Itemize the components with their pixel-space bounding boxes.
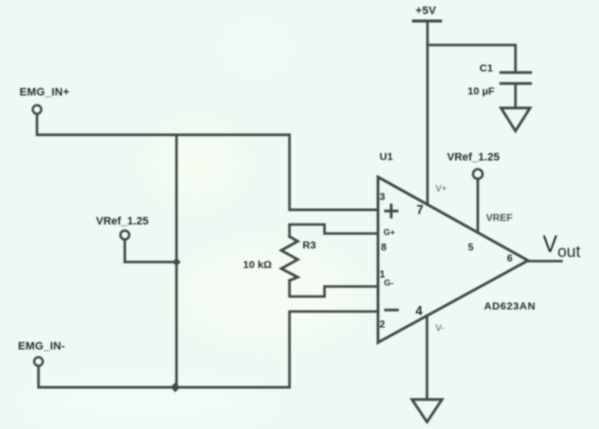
wire VREF to pin 5 bbox=[477, 179, 480, 233]
wire +5V to pin 7 bbox=[426, 23, 429, 205]
plus symbol inside op-amp bbox=[386, 205, 398, 217]
svg-text:U1: U1 bbox=[380, 151, 394, 163]
svg-text:+5V: +5V bbox=[416, 5, 437, 17]
wire EMG_IN- to pin 2 bbox=[39, 312, 378, 388]
capacitor C1 top plate bbox=[501, 71, 531, 74]
svg-text:V+: V+ bbox=[436, 184, 447, 194]
wire +5V branch to C1 bbox=[428, 45, 516, 71]
wire C1 to ground bbox=[514, 85, 517, 107]
svg-text:EMG_IN+: EMG_IN+ bbox=[20, 87, 70, 99]
terminal VRef_1.25 right bbox=[473, 169, 483, 179]
svg-text:C1: C1 bbox=[480, 63, 494, 75]
wire G- feed bbox=[290, 281, 378, 297]
svg-text:7: 7 bbox=[417, 203, 424, 217]
svg-text:out: out bbox=[558, 243, 581, 261]
power +5V bar bbox=[414, 20, 441, 23]
white blotch bottom-left bbox=[20, 383, 280, 423]
terminal EMG_IN+ bbox=[33, 105, 42, 114]
svg-text:VREF: VREF bbox=[486, 213, 513, 224]
svg-text:6: 6 bbox=[507, 254, 513, 265]
op-amp U1 triangle bbox=[378, 177, 528, 343]
svg-text:R3: R3 bbox=[303, 240, 317, 252]
resistor R3 bbox=[281, 237, 297, 281]
svg-text:4: 4 bbox=[416, 304, 423, 318]
terminal VRef_1.25 left bbox=[120, 231, 129, 240]
minus symbol inside op-amp bbox=[386, 309, 398, 312]
ground (V-) bbox=[412, 400, 442, 423]
wire left vertical rail bbox=[175, 135, 178, 387]
svg-text:5: 5 bbox=[468, 243, 474, 254]
svg-text:EMG_IN-: EMG_IN- bbox=[18, 341, 65, 353]
wire EMG_IN+ to pin 3 bbox=[37, 114, 378, 210]
wire output Vout bbox=[528, 260, 562, 263]
svg-text:V: V bbox=[543, 231, 558, 258]
wire VRef left to rail bbox=[125, 240, 177, 263]
wire pin 4 to ground bbox=[426, 316, 429, 399]
white blotch upper bbox=[151, 128, 241, 200]
svg-text:3: 3 bbox=[380, 192, 386, 203]
svg-text:AD623AN: AD623AN bbox=[484, 301, 536, 313]
white blotch top bbox=[223, 28, 287, 68]
svg-text:G-: G- bbox=[384, 278, 394, 288]
svg-text:10 kΩ: 10 kΩ bbox=[243, 259, 272, 271]
wire G+ feed bbox=[290, 225, 378, 237]
capacitor C1 bottom plate bbox=[501, 82, 531, 85]
junction VRef/rail bbox=[172, 258, 180, 266]
svg-text:VRef_1.25: VRef_1.25 bbox=[447, 152, 500, 164]
svg-text:8: 8 bbox=[381, 243, 387, 254]
svg-text:VRef_1.25: VRef_1.25 bbox=[96, 216, 149, 228]
svg-text:10 µF: 10 µF bbox=[468, 86, 496, 98]
white blotch center bbox=[180, 249, 356, 341]
terminal EMG_IN- bbox=[34, 357, 43, 366]
ground (C1) bbox=[501, 108, 530, 131]
junction EMG_IN-/rail bbox=[170, 382, 180, 392]
svg-text:2: 2 bbox=[380, 319, 386, 330]
svg-text:V-: V- bbox=[436, 323, 445, 333]
svg-text:G+: G+ bbox=[384, 227, 396, 237]
